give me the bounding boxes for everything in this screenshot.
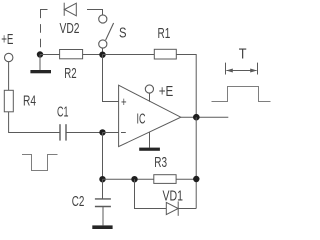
wire dashed horizontal to VD2 (40, 9, 48, 11)
capacitor C2 (95, 199, 111, 207)
capacitor C1 (60, 124, 66, 140)
svg-text:C2: C2 (72, 193, 85, 210)
svg-text:R2: R2 (64, 65, 76, 82)
ground at node A (30, 55, 51, 74)
waveform output square pulse (212, 87, 271, 102)
node C (99, 129, 105, 135)
dimension arrow line (T) (226, 69, 257, 73)
svg-text:R1: R1 (158, 25, 171, 42)
wire IC output (181, 116, 229, 118)
diode VD1 (166, 201, 178, 215)
wire output node down to VD1 rail (195, 117, 197, 208)
svg-text:T: T (239, 45, 247, 62)
wire IC +E terminal stem (149, 93, 151, 102)
wire VD1 to node F (178, 208, 196, 210)
wire C2 to ground (102, 207, 104, 226)
wire R2 to node B (83, 54, 103, 56)
ground at C2 (92, 225, 112, 229)
wire R3 to node F (176, 178, 196, 180)
wire node C to node D (102, 133, 104, 180)
op-amp U1 IC triangle (119, 85, 181, 146)
svg-text:R3: R3 (154, 154, 167, 171)
svg-text:+E: +E (1, 31, 13, 48)
wire +E terminal to R4 (8, 62, 10, 90)
ground at IC (139, 132, 160, 151)
wire R4 to C1 (9, 112, 60, 133)
resistor R1 (154, 49, 176, 59)
waveform input negative pulse (22, 155, 58, 171)
node D (99, 176, 105, 182)
svg-text:C1: C1 (57, 104, 69, 121)
resistor R4 (4, 90, 13, 112)
switch S (99, 15, 114, 48)
diode VD2 (64, 3, 76, 16)
wire node C to inverting input (103, 132, 119, 134)
dimension tick left (T) (225, 63, 227, 75)
svg-text:R4: R4 (23, 93, 36, 110)
wire dashed vertical to node A (40, 10, 42, 54)
svg-text:VD1: VD1 (163, 188, 184, 205)
wire node B to R1 (103, 54, 155, 56)
node B (99, 52, 105, 58)
svg-text:VD2: VD2 (60, 20, 80, 37)
svg-text:+: + (121, 94, 127, 109)
wire VD2 to switch S (87, 10, 103, 15)
node F (193, 176, 199, 182)
wire node B to noninverting input (103, 55, 119, 102)
terminal +E (left supply) (5, 53, 13, 61)
wire node D to C2 (102, 179, 104, 199)
resistor R2 (60, 50, 83, 59)
dimension tick right (T) (257, 63, 259, 75)
node E (131, 176, 137, 182)
svg-text:S: S (119, 25, 127, 42)
svg-text:IC: IC (137, 111, 146, 128)
node output (193, 114, 200, 121)
terminal +E on IC (145, 85, 153, 93)
wire switch to node B (102, 48, 104, 54)
svg-text:+E: +E (159, 83, 174, 100)
wire C1 to node C (66, 132, 103, 134)
node A (37, 51, 43, 57)
svg-text:–: – (121, 124, 126, 139)
resistor R3 (154, 175, 176, 184)
wire node E to VD1 (135, 179, 167, 208)
wire R1 to output node (176, 55, 196, 118)
wire node A to R2 (40, 54, 60, 56)
wire node D to R3 (103, 178, 154, 180)
